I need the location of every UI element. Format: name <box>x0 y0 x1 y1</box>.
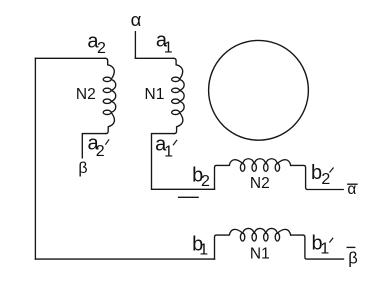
svg-text:1: 1 <box>199 241 208 258</box>
svg-text:1: 1 <box>164 40 173 57</box>
reference bar mark <box>179 196 199 198</box>
prime of b1' <box>330 238 333 242</box>
prime of a2' <box>106 140 109 144</box>
wire: bottom run <box>35 258 214 260</box>
svg-text:N2: N2 <box>250 175 270 192</box>
svg-text:2: 2 <box>201 173 210 190</box>
prime of b2' <box>330 168 333 172</box>
wire: b1' terminal to beta-bar <box>291 235 344 259</box>
motor circle <box>209 40 309 140</box>
overline of beta-bar <box>347 246 355 248</box>
svg-text:α: α <box>131 9 142 30</box>
inductor N1 (vertical winding a1-a1') <box>172 58 185 133</box>
svg-text:β: β <box>348 250 358 268</box>
wire: a1' drop to b2 row <box>152 134 215 190</box>
svg-text:α: α <box>347 181 356 198</box>
svg-text:N1: N1 <box>145 86 165 103</box>
svg-text:1: 1 <box>320 241 329 258</box>
inductor N1 (horizontal winding b1-b1') with left step <box>215 228 291 259</box>
wire: alpha lead <box>134 32 136 59</box>
svg-text:N2: N2 <box>76 86 96 103</box>
wire: left rail <box>34 58 36 259</box>
svg-text:β: β <box>78 160 87 177</box>
inductor N2 (horizontal winding b2-b2') with left step <box>215 159 291 190</box>
svg-text:1: 1 <box>164 143 173 160</box>
prime of a1' <box>173 140 176 145</box>
wire: a1 top feed <box>135 57 173 59</box>
wire: b2' terminal to alpha-bar <box>291 165 344 189</box>
inductor N2 (vertical winding a2-a2') <box>103 58 116 133</box>
wire: a2 top feed <box>35 57 105 59</box>
svg-text:2: 2 <box>321 171 330 188</box>
svg-text:N1: N1 <box>250 245 270 262</box>
svg-text:2: 2 <box>97 40 106 57</box>
svg-text:2: 2 <box>96 143 105 160</box>
overline of alpha-bar <box>348 183 357 185</box>
wire: a2' lead to beta <box>82 134 106 158</box>
